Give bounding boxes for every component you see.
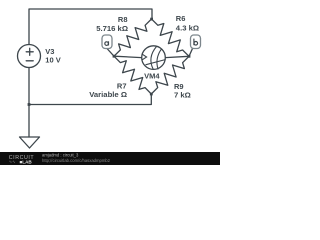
svg-text:5.716 kΩ: 5.716 kΩ xyxy=(96,24,128,33)
svg-text:4.3 kΩ: 4.3 kΩ xyxy=(176,23,199,32)
svg-text:7 kΩ: 7 kΩ xyxy=(174,91,191,100)
svg-text:10 V: 10 V xyxy=(45,56,60,65)
svg-text:R7: R7 xyxy=(117,81,127,90)
svg-text:VM4: VM4 xyxy=(144,71,160,80)
svg-text:∿∿: ∿∿ xyxy=(9,159,16,164)
svg-text:Variable Ω: Variable Ω xyxy=(89,90,127,99)
svg-text:■LAB: ■LAB xyxy=(20,159,33,164)
svg-text:R6: R6 xyxy=(176,14,186,23)
svg-text:amjadmd : circuit_3: amjadmd : circuit_3 xyxy=(42,153,79,158)
svg-text:R8: R8 xyxy=(118,15,128,24)
svg-text:http;//circuitlab.com/c/hasxad: http;//circuitlab.com/c/hasxadmpmb2 xyxy=(42,158,111,163)
